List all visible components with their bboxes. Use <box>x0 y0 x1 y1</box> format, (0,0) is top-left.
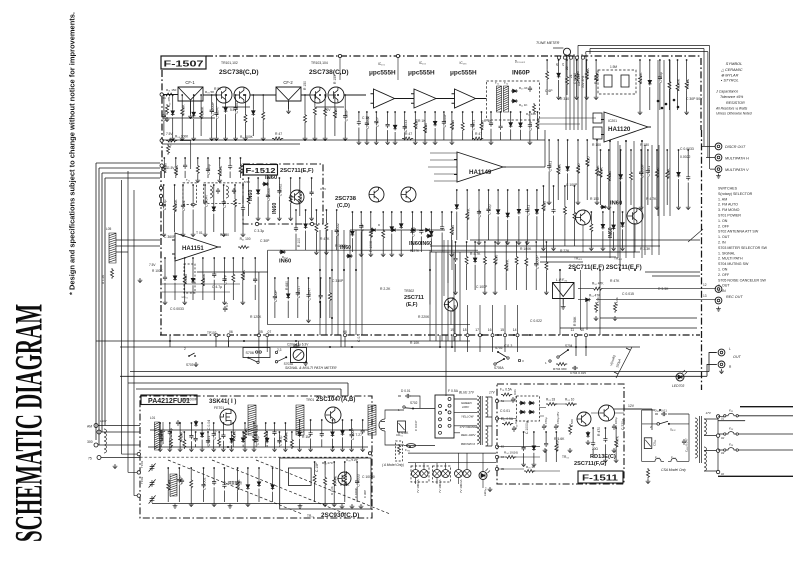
resistor/cap string u6 <box>299 177 301 179</box>
svg-text:IN60: IN60 <box>279 259 291 265</box>
resistor/cap string w4 <box>195 431 197 433</box>
resistor/cap string j34 <box>622 211 624 213</box>
svg-text:7.5V: 7.5V <box>149 263 156 267</box>
resistor/cap string p3 <box>321 419 323 421</box>
wire HA1149 inputs <box>428 153 457 181</box>
wire top right loop verticals <box>566 56 568 61</box>
resistor/cap string j4 <box>574 185 576 187</box>
svg-text:MULTIPATH H: MULTIPATH H <box>725 157 749 161</box>
wire emitter links <box>162 107 344 118</box>
resistor/cap string f1 <box>456 189 458 191</box>
transistor TR01 2SC1047 <box>325 407 341 423</box>
resistor R101 <box>164 93 175 96</box>
svg-text:R 680: R 680 <box>285 281 289 290</box>
resistor/cap string a26 <box>262 94 264 96</box>
resistor/cap string f5 <box>497 189 499 191</box>
block FM right border <box>701 130 703 390</box>
resistor/cap string m3 <box>474 241 476 243</box>
svg-text:μpc555H: μpc555H <box>450 70 477 77</box>
resistor/cap string r2 <box>533 431 535 433</box>
svg-text:HA1149: HA1149 <box>469 169 492 176</box>
resistor/cap string q3 <box>333 461 335 463</box>
ground antenna <box>113 464 118 469</box>
svg-text:2SC738(C,D): 2SC738(C,D) <box>309 69 349 76</box>
svg-text:TR101,102: TR101,102 <box>221 61 238 65</box>
svg-text:S706: S706 <box>246 351 254 355</box>
svg-text:R 33K: R 33K <box>244 428 248 439</box>
svg-text:R 10K: R 10K <box>666 168 670 179</box>
svg-text:L.P.F.₀₁: L.P.F.₀₁ <box>556 278 568 282</box>
wire bus <box>441 252 443 341</box>
svg-text:05: 05 <box>259 330 263 334</box>
svg-text:SYMBOL: SYMBOL <box>726 61 743 66</box>
svg-text:C 3.3μ: C 3.3μ <box>488 204 492 215</box>
wire pin drops 11 10 <box>576 335 586 356</box>
capacitor C801 0.01 <box>511 397 515 403</box>
svg-text:21: 21 <box>561 62 565 66</box>
svg-text:F₉₀₂: F₉₀₂ <box>671 456 676 460</box>
resistor/cap string k9 <box>242 257 244 259</box>
wire power bus <box>624 408 642 410</box>
svg-text:1.9M: 1.9M <box>610 65 617 69</box>
resistor/cap string i1 <box>647 149 649 151</box>
resistor/cap string a32 <box>314 94 316 96</box>
svg-text:0.0022: 0.0022 <box>680 155 690 159</box>
svg-text:TR₄₀₁: TR₄₀₁ <box>574 257 582 261</box>
capacitor osc <box>180 478 184 484</box>
styrol dots cluster <box>657 100 660 103</box>
svg-text:3SK41( I ): 3SK41( I ) <box>209 399 236 405</box>
resistor/cap string d7 <box>414 111 416 113</box>
resistor/cap string t10 <box>272 467 274 469</box>
resistor/cap string g32 <box>608 149 610 151</box>
resistor/cap string o2 <box>169 422 171 424</box>
resistor/cap string e5 <box>391 211 393 213</box>
lamp risers <box>416 453 484 488</box>
resistor/cap string d17 <box>510 111 512 113</box>
resistor/cap string w5 <box>207 431 209 433</box>
resistor/cap string g31 <box>600 149 602 151</box>
svg-text:C 10μ: C 10μ <box>213 430 217 440</box>
svg-text:R 5.6K: R 5.6K <box>596 297 600 306</box>
wire bus <box>467 305 469 335</box>
resistor/cap string q5 <box>356 461 358 463</box>
lamp PL701 <box>412 470 420 478</box>
wire IN60P to HA1120 <box>540 118 596 124</box>
svg-text:R 1K: R 1K <box>418 119 426 123</box>
resistor/cap string c5 <box>336 209 338 211</box>
wire bus <box>492 305 494 335</box>
svg-text:L05: L05 <box>106 227 112 231</box>
resistor R704 muting <box>556 363 567 366</box>
pin circles left border <box>159 186 162 189</box>
svg-text:7V 100mA: 7V 100mA <box>416 479 420 493</box>
svg-text:R 4.7K: R 4.7K <box>466 208 470 220</box>
lamp PL704 <box>442 470 450 478</box>
svg-text:C 10μ: C 10μ <box>255 436 259 446</box>
svg-text:R 100: R 100 <box>592 143 601 147</box>
capacitor C151 <box>528 86 532 92</box>
svg-text:SCHEMATIC DIAGRAM: SCHEMATIC DIAGRAM <box>8 304 51 542</box>
svg-text:R 180: R 180 <box>640 143 649 147</box>
op-amp IC401 HA1151 <box>172 233 221 261</box>
svg-text:R₀₂ 470: R₀₂ 470 <box>167 97 171 107</box>
diode network D101 IN60P dashed box <box>487 81 540 120</box>
wire tune meter drop <box>553 47 563 49</box>
resistor/cap string g33 <box>620 149 622 151</box>
svg-text:C 0.022: C 0.022 <box>530 319 542 323</box>
svg-text:R₀₂ 10: R₀₂ 10 <box>565 398 575 402</box>
resistor/cap string h2 <box>557 139 559 141</box>
svg-text:C 0.1: C 0.1 <box>357 334 361 342</box>
svg-text:R 4.7K: R 4.7K <box>615 435 619 447</box>
svg-text:RESISTOR: RESISTOR <box>726 101 745 105</box>
wire bus <box>355 230 357 335</box>
svg-text:R 150: R 150 <box>303 81 307 90</box>
svg-text:C 100μ: C 100μ <box>614 417 618 427</box>
svg-text:06: 06 <box>229 330 233 334</box>
wire bus <box>669 60 671 216</box>
resistor/cap string a15 <box>200 94 202 96</box>
resistor/cap string l15 <box>320 277 322 279</box>
svg-text:C 10000: C 10000 <box>362 475 375 479</box>
resistor/cap string l13 <box>297 277 299 279</box>
risers 2SC711 <box>540 223 635 252</box>
ceramic filter CF-2 <box>276 87 301 109</box>
jack REC OUT R <box>715 297 722 304</box>
resistor/cap string t2 <box>178 467 180 469</box>
svg-text:2,3: 2,3 <box>277 348 282 352</box>
wire 7.5V bus <box>162 139 545 141</box>
svg-text:S702: S702 <box>410 401 418 405</box>
wire 12V output <box>614 409 652 430</box>
resistor/cap string a24 <box>245 94 247 96</box>
resistor/cap string m5 <box>494 241 496 243</box>
op-amp IC102 upc555H <box>411 89 439 108</box>
svg-text:CF-1: CF-1 <box>185 80 195 85</box>
transistor TR802 2SC711 regulator <box>577 412 591 426</box>
svg-text:T 01: T 01 <box>196 231 203 235</box>
wire left bus top links <box>96 163 160 178</box>
wire bus <box>429 252 431 341</box>
svg-text:1. ON: 1. ON <box>718 268 728 272</box>
resistor/cap string g22 <box>649 59 651 61</box>
svg-text:T₀₁: T₀₁ <box>186 178 190 182</box>
resistor/cap string g35 <box>640 149 642 151</box>
svg-text:S704 MUTING SW: S704 MUTING SW <box>718 262 749 266</box>
ground meter <box>303 361 308 366</box>
wire AM tuning rail <box>150 429 368 431</box>
resistor/cap string g23 <box>659 59 661 61</box>
label box F-1507 <box>161 56 206 69</box>
resistor/cap string s8 <box>240 157 242 159</box>
svg-text:2SC711(E,F): 2SC711(E,F) <box>280 168 314 174</box>
fuse F01 <box>726 413 736 415</box>
resistor/cap string a25 <box>252 94 254 96</box>
svg-text:16: 16 <box>488 328 492 332</box>
svg-text:R 220: R 220 <box>451 225 455 235</box>
dashed filter box B <box>204 183 243 204</box>
op-amp IC101 upc555H <box>371 89 398 108</box>
resistor/cap string p6 <box>351 419 353 421</box>
wire power rails <box>497 401 624 471</box>
svg-text:R 33K: R 33K <box>557 163 561 174</box>
svg-text:R₅₁ 47K: R₅₁ 47K <box>589 294 601 298</box>
svg-text:C 5P: C 5P <box>478 209 482 218</box>
resistor/cap string t7 <box>237 467 239 469</box>
svg-text:F-1512: F-1512 <box>246 166 276 175</box>
resistor/cap string b3 <box>182 184 184 186</box>
resistor/cap string g12 <box>558 59 560 61</box>
resistor/cap string j32 <box>602 211 604 213</box>
resistor/cap string f4 <box>488 189 490 191</box>
svg-text:C 0.002: C 0.002 <box>203 478 207 491</box>
wire bus <box>349 230 351 335</box>
label box PA4212FU01 <box>141 395 197 405</box>
block PA4212FU01 border <box>140 396 372 518</box>
svg-text:R 220: R 220 <box>344 474 348 484</box>
power transformer T701 secondary upper <box>486 397 488 417</box>
resistor/cap string c1 <box>295 209 297 211</box>
svg-text:R 2.2K: R 2.2K <box>299 190 303 202</box>
transistor TR402 2SC711 <box>627 208 643 224</box>
svg-text:R 100K: R 100K <box>677 78 681 91</box>
wire bus <box>453 252 455 341</box>
resistor/cap string q4 <box>344 461 346 463</box>
transistor TR104 2SC738 <box>328 87 344 103</box>
wire transformer leads <box>454 397 492 446</box>
wire CSA loop <box>642 410 689 461</box>
svg-text:C 100P: C 100P <box>566 183 578 187</box>
svg-text:C₀₂ 0.01: C₀₂ 0.01 <box>514 418 518 429</box>
svg-text:(E,F): (E,F) <box>406 302 418 308</box>
wire verticals center extra <box>341 335 446 396</box>
fuse F901 CSA <box>652 458 664 461</box>
svg-text:CD₉₁: CD₉₁ <box>652 440 656 446</box>
pin circles AM left edge <box>137 452 140 455</box>
svg-text:R 10K: R 10K <box>686 78 690 89</box>
block F-1512 border <box>243 164 323 224</box>
svg-text:R 220: R 220 <box>576 71 580 81</box>
svg-text:TR103,104: TR103,104 <box>311 61 328 65</box>
resistor/cap string w10 <box>266 431 268 433</box>
power transformer T701 primary <box>477 396 479 444</box>
resistor/cap string p5 <box>342 419 344 421</box>
transistor TR301 2SC711 <box>445 298 458 311</box>
capacitor D901 0.01 CSA <box>661 412 667 416</box>
svg-text:IC₁₀₁: IC₁₀₁ <box>378 62 385 66</box>
svg-text:1. ON: 1. ON <box>718 219 728 223</box>
resistor/cap string d14 <box>481 111 483 113</box>
svg-text:7V 100mA: 7V 100mA <box>438 479 442 493</box>
svg-text:R 100K: R 100K <box>202 273 206 286</box>
dashed gang line 2 <box>212 460 346 514</box>
ground out jacks <box>719 369 724 374</box>
detector transformer T102 <box>504 86 509 112</box>
resistor/cap string i2 <box>656 149 658 151</box>
wire output bus 2 <box>120 364 716 376</box>
resistor/cap string c4 <box>326 209 328 211</box>
wire bus 144 <box>162 143 300 145</box>
dashed adjust line <box>140 456 370 458</box>
svg-text:S702 ANTENNA ATT SW: S702 ANTENNA ATT SW <box>718 230 759 234</box>
svg-text:C 0.047: C 0.047 <box>204 194 208 207</box>
svg-text:2SC1047(A,B): 2SC1047(A,B) <box>316 397 355 403</box>
resistor/cap string d13 <box>472 111 474 113</box>
resistor/cap string a11 <box>163 94 165 96</box>
svg-text:R 47K: R 47K <box>285 431 289 442</box>
resistor/cap string x3 <box>615 427 617 429</box>
resistor/cap string s3 <box>184 157 186 159</box>
resistor/cap string d15 <box>490 111 492 113</box>
svg-text:13: 13 <box>703 294 707 298</box>
resistor/cap string b6 <box>213 184 215 186</box>
resistor/cap string w12 <box>291 431 293 433</box>
svg-text:C 47P: C 47P <box>529 120 533 131</box>
wire meter riser <box>229 341 299 362</box>
diode D102 <box>511 99 518 103</box>
svg-text:▪ STYROL: ▪ STYROL <box>721 79 739 83</box>
resistor/cap string a34 <box>334 94 336 96</box>
svg-text:R 3.3K: R 3.3K <box>658 287 669 291</box>
spark killer CD02 <box>644 438 652 449</box>
wire bus <box>585 54 587 130</box>
dashed gang line 1 <box>168 460 302 514</box>
svg-text:C 0.002: C 0.002 <box>279 184 283 197</box>
fuse resistor F02 0.5A <box>502 422 513 425</box>
svg-text:R 33K: R 33K <box>370 227 374 238</box>
power transformer T701 secondary lower <box>486 426 488 446</box>
svg-text:IN60P: IN60P <box>512 70 530 77</box>
wire bus <box>565 54 567 130</box>
svg-text:C 5P: C 5P <box>223 199 227 208</box>
resistor box network HA1120 input <box>593 113 602 123</box>
LED704 <box>479 472 487 480</box>
resistor/cap string e4 <box>382 211 384 213</box>
svg-text:R 150: R 150 <box>577 164 581 174</box>
svg-text:R 35K: R 35K <box>340 483 350 487</box>
resistor/cap string u1 <box>248 177 250 179</box>
svg-text:C 0.047: C 0.047 <box>297 286 301 299</box>
resistor/cap string h1 <box>548 139 550 141</box>
svg-text:R704 680: R704 680 <box>553 367 567 371</box>
svg-text:R 5.6K: R 5.6K <box>554 437 565 441</box>
resistor/cap string j31 <box>590 211 592 213</box>
fuse resistor F01 0.5A <box>501 393 512 396</box>
resistor/cap string g26 <box>686 59 688 61</box>
svg-text:C 1000P: C 1000P <box>535 255 539 270</box>
resistor/cap string d19 <box>529 111 531 113</box>
svg-text:TC01: TC01 <box>140 460 144 468</box>
wire bus <box>573 54 575 130</box>
svg-text:R 100K: R 100K <box>174 199 178 212</box>
svg-text:R 560: R 560 <box>656 168 660 178</box>
resistor/cap string r3 <box>545 431 547 433</box>
transformer core <box>481 396 483 445</box>
grounds 2SC930 <box>340 504 345 509</box>
svg-text:CF-2: CF-2 <box>283 80 293 85</box>
resistor/cap string d3 <box>375 111 377 113</box>
svg-text:△ CERAMIC: △ CERAMIC <box>720 68 743 72</box>
capacitor C704 <box>572 366 578 370</box>
svg-text:17V: 17V <box>489 391 496 395</box>
wire bus <box>343 230 345 335</box>
IFT T01 <box>248 405 256 435</box>
svg-text:C 0.047: C 0.047 <box>308 288 312 301</box>
svg-text:C 0.04: C 0.04 <box>207 420 211 430</box>
svg-text:R 330: R 330 <box>560 97 569 101</box>
svg-text:D₃₀₄: D₃₀₄ <box>282 255 289 259</box>
svg-text:R 33K: R 33K <box>242 269 246 280</box>
label box F-1512 <box>244 165 278 176</box>
svg-text:R 150K: R 150K <box>255 424 259 436</box>
resistor/cap string f6 <box>507 189 509 191</box>
svg-text:C 0.01: C 0.01 <box>647 166 651 177</box>
resistor/cap string x1 <box>592 427 594 429</box>
block FM bottom border <box>160 334 700 336</box>
svg-text:D₁₀₁,₁₀₂: D₁₀₁,₁₀₂ <box>515 59 526 63</box>
wire bus <box>331 230 333 335</box>
resistor/cap string m2 <box>466 241 468 243</box>
svg-text:7.5V: 7.5V <box>166 132 173 136</box>
trimmer TC03 <box>149 495 156 503</box>
output transformer T901 secondary lower <box>704 447 706 471</box>
resistor/cap string p1 <box>299 419 301 421</box>
svg-text:R₅₀ 47K: R₅₀ 47K <box>592 282 604 286</box>
resistor/cap string g34 <box>630 149 632 151</box>
svg-text:R 150: R 150 <box>590 197 599 201</box>
svg-text:R 47K: R 47K <box>610 279 620 283</box>
svg-text:C 10μ: C 10μ <box>412 227 416 237</box>
resistor/cap string w3 <box>183 431 185 433</box>
pin dots bottom border <box>215 334 218 337</box>
resistor R804 10(16) <box>505 456 516 459</box>
resistor/cap string i3 <box>666 149 668 151</box>
wire bus <box>361 230 363 335</box>
resistor/cap string w11 <box>279 431 281 433</box>
svg-text:R 56K: R 56K <box>573 316 577 326</box>
svg-text:R 47K: R 47K <box>320 237 330 241</box>
svg-text:Tolerance ±5%: Tolerance ±5% <box>720 95 743 99</box>
wire bus <box>663 60 665 216</box>
wire mid bus B <box>540 257 616 262</box>
svg-text:Unless Otherwise Noted: Unless Otherwise Noted <box>716 112 752 116</box>
capacitor C805 100u <box>612 424 616 430</box>
resistor/cap string d12 <box>462 111 464 113</box>
svg-text:R 6.8K: R 6.8K <box>586 68 590 80</box>
wire multipath diagonal <box>614 347 632 378</box>
resistor/cap string u3 <box>267 177 269 179</box>
wire IF strip main rail <box>163 95 486 99</box>
resistor/cap string d9 <box>434 111 436 113</box>
svg-text:3. FM MONO: 3. FM MONO <box>718 208 740 212</box>
svg-text:C204 47μ 6.3V: C204 47μ 6.3V <box>287 343 309 347</box>
svg-text:J Capacitance: J Capacitance <box>715 90 738 94</box>
resistor/cap string a35 <box>344 94 346 96</box>
wire bus <box>337 230 339 335</box>
resistor/cap string d20 <box>537 111 539 113</box>
wire L05 links <box>116 240 160 252</box>
svg-text:C 3.3μ: C 3.3μ <box>659 72 663 83</box>
svg-text:R 50: R 50 <box>214 87 221 91</box>
svg-text:3.5V: 3.5V <box>320 187 326 191</box>
resistor/cap string o7 <box>223 422 225 424</box>
jack MULTIPATH V <box>715 166 722 173</box>
svg-text:R 100K: R 100K <box>200 106 204 119</box>
transistor FET01 3SK41 <box>220 409 236 425</box>
resistor R119 47 <box>272 137 283 140</box>
capacitor C802 0.01 <box>512 426 516 432</box>
